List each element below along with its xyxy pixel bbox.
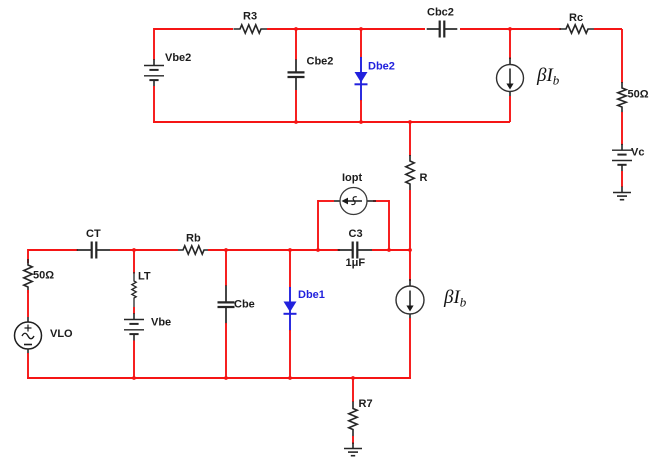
svg-text:Cbe2: Cbe2 [307,56,334,68]
svg-text:Rc: Rc [569,12,583,24]
svg-text:R: R [420,172,428,184]
svg-text:50Ω: 50Ω [33,270,54,282]
svg-text:CT: CT [86,228,101,240]
svg-text:Vbe2: Vbe2 [165,52,191,64]
svg-text:Vc: Vc [631,147,644,159]
svg-text:Dbe1: Dbe1 [298,289,325,301]
svg-text:50Ω: 50Ω [628,89,649,101]
svg-text:LT: LT [138,271,151,283]
svg-text:C3: C3 [349,228,363,240]
svg-text:Cbc2: Cbc2 [427,7,454,19]
svg-text:Dbe2: Dbe2 [368,61,395,73]
svg-text:Cbe: Cbe [234,299,255,311]
svg-text:Iopt: Iopt [342,172,362,184]
svg-text:R3: R3 [243,11,257,23]
svg-text:R7: R7 [359,398,373,410]
svg-text:Vbe: Vbe [151,317,171,329]
svg-text:Rb: Rb [186,233,201,245]
svg-text:1μF: 1μF [346,257,366,269]
svg-text:VLO: VLO [50,328,73,340]
